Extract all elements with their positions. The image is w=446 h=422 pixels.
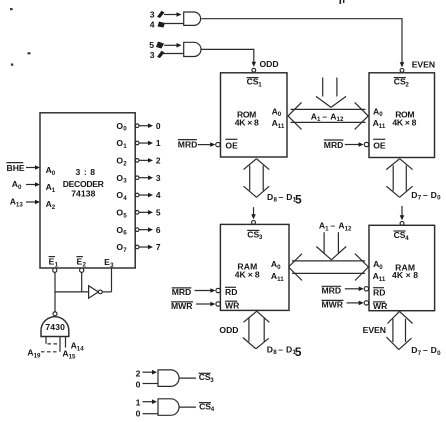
svg-text:–: – [423, 190, 428, 200]
svg-text:0: 0 [18, 184, 22, 191]
svg-text:7: 7 [418, 195, 422, 202]
svg-text:4: 4 [156, 190, 161, 200]
svg-text:4K × 8: 4K × 8 [235, 118, 259, 128]
svg-text:4: 4 [405, 235, 409, 242]
svg-text:–: – [330, 221, 335, 231]
svg-text:8: 8 [274, 197, 278, 204]
svg-text:BHE: BHE [7, 163, 25, 173]
svg-text:CS: CS [199, 372, 211, 382]
svg-text:4K × 8: 4K × 8 [392, 270, 418, 280]
svg-text:MWR: MWR [171, 301, 193, 311]
svg-text:MWR: MWR [322, 299, 344, 309]
svg-text:4K × 8: 4K × 8 [235, 269, 260, 279]
svg-text:D: D [286, 344, 292, 354]
svg-text:D: D [411, 190, 417, 200]
svg-text:6: 6 [156, 225, 161, 235]
svg-text:D: D [286, 192, 292, 202]
svg-text:74138: 74138 [71, 189, 95, 199]
svg-text:2: 2 [405, 82, 409, 89]
svg-text:3: 3 [150, 50, 155, 60]
svg-text:7430: 7430 [45, 322, 65, 332]
svg-text:OE: OE [373, 141, 386, 151]
svg-text:11: 11 [277, 276, 284, 283]
svg-text:12: 12 [345, 226, 352, 233]
svg-text:11: 11 [379, 276, 386, 283]
svg-text:3: 3 [210, 377, 214, 384]
svg-text:3: 3 [110, 262, 114, 269]
svg-text:MRD: MRD [178, 140, 198, 150]
svg-text:0: 0 [379, 264, 383, 271]
svg-text:1: 1 [55, 261, 59, 268]
svg-text:11: 11 [278, 123, 285, 130]
svg-text:2: 2 [83, 261, 87, 268]
svg-text:2: 2 [156, 155, 161, 165]
svg-text:15: 15 [69, 353, 76, 360]
svg-text:7: 7 [156, 242, 161, 252]
svg-text:19: 19 [34, 352, 41, 359]
svg-text:4: 4 [211, 406, 215, 413]
svg-text:0: 0 [278, 111, 282, 118]
svg-text:WR: WR [225, 300, 240, 310]
svg-text:OE: OE [225, 141, 238, 151]
svg-text:7: 7 [123, 247, 127, 254]
svg-text:CS: CS [247, 229, 259, 239]
svg-text:13: 13 [16, 202, 23, 209]
svg-text:2: 2 [136, 368, 141, 378]
svg-text:ODD: ODD [219, 325, 238, 335]
svg-text:1: 1 [258, 82, 262, 89]
svg-text:1: 1 [325, 226, 329, 233]
svg-text:ODD: ODD [260, 59, 279, 69]
svg-text:2: 2 [123, 160, 127, 167]
svg-text:MRD: MRD [172, 287, 192, 297]
svg-text:5: 5 [123, 212, 127, 219]
svg-text:MRD: MRD [322, 285, 342, 295]
svg-text:–: – [279, 192, 284, 202]
svg-text:12: 12 [337, 116, 344, 123]
svg-text:5: 5 [295, 345, 302, 359]
svg-text:4K × 8: 4K × 8 [392, 118, 416, 128]
svg-text:1: 1 [123, 143, 127, 150]
svg-text:D: D [411, 345, 417, 355]
svg-text:3: 3 [156, 173, 161, 183]
svg-text:3: 3 [150, 10, 155, 20]
svg-text:0: 0 [123, 126, 127, 133]
svg-text:0: 0 [136, 380, 141, 390]
svg-text:4: 4 [123, 195, 127, 202]
svg-text:WR: WR [373, 301, 388, 311]
svg-text:5: 5 [156, 207, 161, 217]
svg-text:0: 0 [156, 121, 161, 131]
svg-text:EVEN: EVEN [412, 59, 435, 69]
svg-text:11: 11 [379, 123, 386, 130]
svg-text:5: 5 [149, 40, 154, 50]
svg-text:–: – [278, 344, 283, 354]
svg-text:8: 8 [273, 349, 277, 356]
svg-text:CS: CS [247, 77, 259, 87]
svg-text:0: 0 [437, 195, 441, 202]
svg-text:EVEN: EVEN [363, 325, 386, 335]
svg-text:RD: RD [225, 287, 237, 297]
svg-text:0: 0 [379, 111, 383, 118]
svg-text:0: 0 [437, 350, 441, 357]
svg-text:1: 1 [52, 187, 56, 194]
svg-text:–: – [322, 111, 327, 121]
svg-text:DECODER: DECODER [63, 179, 105, 189]
svg-text:0: 0 [136, 409, 141, 419]
svg-text:6: 6 [123, 230, 127, 237]
svg-text:D: D [431, 190, 437, 200]
svg-text:D: D [267, 192, 273, 202]
svg-text:3: 3 [123, 178, 127, 185]
svg-text:3: 3 [259, 234, 263, 241]
svg-text:14: 14 [77, 346, 84, 353]
svg-text:CS: CS [394, 77, 406, 87]
svg-text:CS: CS [199, 401, 211, 411]
svg-text:0: 0 [277, 264, 281, 271]
svg-text:0: 0 [52, 170, 56, 177]
svg-text:D: D [431, 345, 437, 355]
svg-text:3 : 8: 3 : 8 [76, 167, 96, 177]
svg-text:2: 2 [52, 204, 56, 211]
svg-text:–: – [423, 345, 428, 355]
svg-text:4: 4 [150, 20, 155, 30]
svg-text:5: 5 [295, 193, 302, 207]
svg-text:1: 1 [317, 116, 321, 123]
svg-text:RD: RD [373, 287, 385, 297]
svg-text:CS: CS [394, 230, 406, 240]
svg-text:1: 1 [156, 138, 161, 148]
svg-text:7: 7 [418, 350, 422, 357]
svg-text:1: 1 [136, 398, 141, 408]
svg-text:MRD: MRD [324, 140, 344, 150]
svg-text:D: D [267, 344, 273, 354]
